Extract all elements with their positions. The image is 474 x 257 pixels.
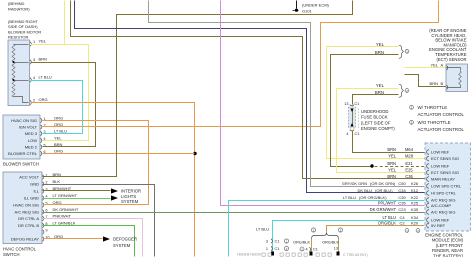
svg-text:ORG/BLK: ORG/BLK [293, 241, 310, 245]
svg-text:1: 1 [266, 247, 268, 251]
wire GRY/DK GRN from top edge to ECM LOW SPD CTRL [149, 1, 425, 187]
arrow to interior lights (blk) [111, 188, 118, 193]
svg-text:DEFOGGER: DEFOGGER [113, 237, 137, 242]
wire YEL variant1 to ECM ECT SENS SIG M28 [327, 47, 425, 159]
svg-text:DR CTRL A: DR CTRL A [18, 216, 39, 221]
svg-text:(LEFT SIDE OF: (LEFT SIDE OF [361, 120, 391, 125]
svg-text:LOW REF: LOW REF [431, 149, 450, 154]
legend 2 without throttle actuator control [410, 120, 414, 124]
svg-text:DEFOG RELAY: DEFOG RELAY [11, 237, 39, 242]
wire DK GRN/WHT HVAC pin6 to ECM A/C REQ SIG [43, 212, 425, 214]
svg-text:M64: M64 [405, 147, 414, 152]
svg-text:(UNDER ECM): (UNDER ECM) [302, 2, 330, 7]
resistor pin 1 [30, 42, 31, 46]
ECT sensor pins A B [447, 66, 448, 70]
svg-text:ORG: ORG [39, 97, 48, 102]
svg-text:ORG: ORG [54, 234, 63, 239]
ECM dashed box [425, 143, 471, 231]
wire ORG blower switch pin2 IGN VOLT to top right [43, 1, 439, 127]
wire YEL resistor pin1 to top edge [64, 1, 66, 45]
svg-text:4: 4 [306, 248, 308, 252]
note UNDERHOOD FUSE BLOCK [358, 109, 360, 129]
svg-text:HVAC ON SIG: HVAC ON SIG [11, 118, 37, 123]
wire YEL resistor pin1 to blower switch LOW [31, 45, 89, 141]
underhood fuse block connector body [349, 107, 356, 128]
svg-text:DK BLU: DK BLU [358, 188, 373, 193]
svg-text:GRY/DK GRN: GRY/DK GRN [342, 181, 367, 186]
svg-text:BLOWER CTRL: BLOWER CTRL [8, 151, 38, 156]
wire ORG/BLK branch 2 to pin 13 [338, 239, 340, 253]
svg-text:K22: K22 [411, 195, 419, 200]
svg-text:ORG: ORG [54, 122, 63, 127]
svg-text:ENGINE COOLANT: ENGINE COOLANT [429, 47, 467, 52]
svg-text:C36: C36 [405, 174, 413, 179]
wire BRN resistor pin3 to blower switch MED 2 [31, 63, 96, 147]
svg-text:C1: C1 [275, 240, 280, 244]
resistor element chain [12, 44, 15, 62]
wire BRN from top edge to ECM MAIN RELAY [71, 1, 425, 179]
svg-text:SYSTEM: SYSTEM [113, 243, 131, 248]
svg-text:6: 6 [46, 208, 48, 212]
svg-text:C T RD US RLY): C T RD US RLY) [343, 253, 368, 257]
wire PNK/WHT HVAC pin7 DR CTRL A down [43, 219, 143, 257]
svg-text:ORG: ORG [53, 200, 62, 205]
svg-text:C1: C1 [275, 247, 280, 251]
svg-text:13: 13 [334, 247, 338, 251]
wire LT BLU ECM A/C REQ SIG down to module [229, 201, 425, 257]
svg-text:2: 2 [46, 180, 48, 184]
svg-text:C34: C34 [398, 188, 406, 193]
blower switch box [3, 115, 40, 159]
svg-text:ORG/BLK: ORG/BLK [322, 241, 339, 245]
svg-text:YEL: YEL [388, 167, 396, 172]
svg-text:LT BLU: LT BLU [343, 195, 356, 200]
resistor pin 3 [30, 60, 31, 64]
svg-text:C1: C1 [313, 248, 318, 252]
svg-text:SWITCH: SWITCH [3, 252, 20, 257]
svg-text:ORG: ORG [54, 149, 63, 154]
svg-text:BRN: BRN [53, 172, 62, 177]
svg-text:GND: GND [30, 182, 39, 187]
fuse block pin 4 C1 [350, 130, 354, 131]
ECM variant circles [405, 229, 409, 233]
fuse block pin 13 C1 [350, 105, 354, 106]
wire BRN/WHT HVAC pin3 ILL to interior lights [43, 190, 111, 192]
svg-text:BRN: BRN [375, 90, 384, 95]
svg-text:BRN: BRN [387, 174, 396, 179]
svg-text:C2: C2 [399, 220, 405, 225]
svg-text:G101: G101 [302, 9, 313, 14]
svg-text:ORG/BLK: ORG/BLK [378, 220, 396, 225]
svg-text:LT GRN/WHT: LT GRN/WHT [53, 193, 78, 198]
svg-text:9: 9 [46, 228, 48, 232]
svg-text:RESISTOR: RESISTOR [8, 35, 28, 40]
ground G101 [296, 1, 298, 9]
svg-text:MAIN RELAY: MAIN RELAY [431, 176, 455, 181]
svg-text:5V REF: 5V REF [431, 223, 446, 228]
svg-text:YEL: YEL [388, 153, 396, 158]
svg-text:UNDERHOOD: UNDERHOOD [361, 109, 388, 114]
svg-text:K34: K34 [411, 215, 419, 220]
svg-text:PNK/WHT: PNK/WHT [53, 214, 72, 219]
svg-text:C35: C35 [398, 200, 406, 205]
wire PPL/WHT from top edge to ECM A/C-COMP [221, 1, 425, 206]
wire BRN variant2 into fuse block pin 13 [353, 95, 399, 105]
svg-text:LT BLU: LT BLU [256, 227, 269, 232]
wire ORG resistor pin2 down to blower control module [31, 103, 195, 257]
blower motor resistor box [8, 40, 30, 106]
svg-text:(BEHIND RIGHT: (BEHIND RIGHT [8, 19, 39, 24]
ECT sensor box [446, 64, 468, 92]
svg-text:K35: K35 [411, 207, 419, 212]
svg-text:SIDE OF DASH): SIDE OF DASH) [8, 24, 38, 29]
svg-text:A/C REQ SIG: A/C REQ SIG [431, 209, 455, 214]
svg-text:C50: C50 [398, 181, 406, 186]
svg-text:A/C REQ SIG: A/C REQ SIG [431, 197, 455, 202]
svg-text:ACTUATOR CONTROL: ACTUATOR CONTROL [418, 127, 465, 132]
svg-text:(OR ORG/BLK): (OR ORG/BLK) [359, 195, 387, 200]
svg-text:LOW REF: LOW REF [431, 217, 450, 222]
wire DK BLU from top edge to ECM HI SPD CTRL [75, 1, 425, 193]
svg-text:LT BLU: LT BLU [382, 215, 396, 220]
svg-text:ENGINE COMPT): ENGINE COMPT) [361, 126, 395, 131]
blower control module connector strip [262, 253, 265, 256]
svg-text:ILL: ILL [33, 189, 39, 194]
wire LT BLU resistor pin4 to blower switch MED 3 [31, 81, 83, 134]
svg-text:YEL: YEL [376, 42, 385, 47]
svg-text:13: 13 [344, 102, 348, 106]
svg-text:C1: C1 [355, 132, 360, 136]
svg-text:ECT SENS SIG: ECT SENS SIG [431, 170, 459, 175]
svg-text:B: B [441, 81, 444, 86]
wire BRN fuse block pin4 to ECM LOW REF M64 [353, 131, 425, 153]
circle 2 throttle variant [405, 89, 409, 93]
svg-text:4: 4 [46, 194, 48, 198]
svg-text:DK GRN/WHT: DK GRN/WHT [53, 207, 79, 212]
blower switch pins 1-6 [41, 118, 42, 122]
arrow interior lights (grn) [111, 195, 118, 200]
wire YEL to ECT sensor pin A [405, 67, 447, 69]
brace variant2 [399, 84, 404, 97]
arrow defogger system [103, 236, 110, 241]
svg-text:K12: K12 [411, 188, 419, 193]
wire ORG blower switch pin6 BLOWER CTRL [43, 153, 195, 155]
svg-text:C1: C1 [355, 102, 360, 106]
svg-text:IGN VOLT: IGN VOLT [19, 125, 38, 130]
svg-text:C30: C30 [398, 195, 406, 200]
wire BRN to ECT sensor pin B [405, 75, 447, 87]
svg-text:E21: E21 [405, 161, 413, 166]
svg-text:BLOWER MOTOR: BLOWER MOTOR [8, 29, 41, 34]
svg-text:E25: E25 [405, 167, 413, 172]
wire BRN HVAC pin1 ACC VOLT to underhood fuse block [43, 1, 353, 177]
svg-text:CYLINDER HEAD,: CYLINDER HEAD, [431, 33, 466, 38]
ECT sensor resistor element [447, 68, 461, 71]
svg-text:TEMPERATURE: TEMPERATURE [435, 52, 467, 57]
svg-text:2: 2 [33, 99, 35, 103]
svg-text:(REAR OF ENGINE: (REAR OF ENGINE [429, 28, 466, 33]
svg-text:ECT SENS SIG: ECT SENS SIG [431, 156, 459, 161]
svg-text:ILL GND: ILL GND [24, 196, 40, 201]
svg-text:LT BLU: LT BLU [39, 75, 52, 80]
svg-text:(LEFT FRONT: (LEFT FRONT [436, 243, 464, 248]
svg-text:ACTUATOR CONTROL: ACTUATOR CONTROL [418, 112, 465, 117]
resistor pin 4 [30, 78, 31, 82]
fuse block internal wire [352, 109, 354, 127]
svg-text:ENGINE CONTROL: ENGINE CONTROL [425, 233, 463, 238]
svg-text:BRN: BRN [39, 57, 48, 62]
svg-text:YEL: YEL [54, 136, 62, 141]
svg-text:DK GRN/WHT: DK GRN/WHT [370, 207, 397, 212]
wire ORG HVAC pin10 DEFOG RELAY to defogger system [45, 238, 103, 240]
svg-text:W/ THROTTLE: W/ THROTTLE [418, 105, 448, 110]
svg-text:BLOWER SWITCH: BLOWER SWITCH [3, 162, 39, 167]
svg-text:LIGHTS: LIGHTS [121, 194, 136, 199]
svg-text:ACC VOLT: ACC VOLT [19, 175, 39, 180]
svg-text:BRN/WHT: BRN/WHT [53, 186, 72, 191]
svg-text:(OR BLU): (OR BLU) [375, 188, 393, 193]
svg-text:3: 3 [33, 58, 35, 62]
circle 1 throttle variant [405, 49, 409, 53]
svg-text:1: 1 [33, 40, 35, 44]
wire BLK HVAC pin2 GND down to bottom [43, 185, 155, 257]
svg-text:LOW: LOW [28, 138, 37, 143]
resistor pin 2 [30, 100, 31, 104]
svg-text:THE BATTERY): THE BATTERY) [433, 253, 463, 257]
svg-text:BRN: BRN [387, 147, 396, 152]
svg-text:M28: M28 [405, 153, 414, 158]
wire LT GRN/WHT HVAC pin4 ILL GND [43, 198, 111, 200]
svg-text:INTERIOR: INTERIOR [121, 189, 141, 194]
wire YEL variant2 to ECM ECT SENS SIG E25 [337, 89, 425, 173]
svg-text:(ECT) SENSOR: (ECT) SENSOR [436, 57, 466, 62]
svg-text:K20: K20 [411, 220, 419, 225]
junction dot ORG at blower ctrl [193, 152, 196, 155]
svg-text:LOW SPD CTRL: LOW SPD CTRL [431, 183, 462, 188]
wire ORG/BLK ECM 5V REF [327, 226, 425, 233]
svg-text:HI SPD CTRL: HI SPD CTRL [431, 190, 457, 195]
svg-text:BLK: BLK [53, 179, 61, 184]
svg-text:W/O THROTTLE: W/O THROTTLE [418, 120, 451, 125]
svg-text:4: 4 [33, 76, 35, 80]
variant circles 1 2 [311, 228, 315, 232]
svg-text:4: 4 [346, 132, 348, 136]
svg-text:BELOW INTAKE: BELOW INTAKE [435, 38, 466, 43]
wire ORG/BLK branch 1 to pin 4 C1 [311, 239, 313, 253]
svg-text:3: 3 [266, 240, 268, 244]
svg-text:BRN: BRN [54, 142, 63, 147]
svg-text:LT BLU: LT BLU [54, 129, 67, 134]
svg-text:HVAC ON SIG: HVAC ON SIG [13, 203, 39, 208]
svg-text:HVAC CONTROL: HVAC CONTROL [3, 247, 37, 252]
module pin black [271, 252, 274, 256]
legend 1 with throttle actuator control [410, 105, 414, 109]
svg-text:A: A [441, 62, 444, 67]
svg-text:SYSTEM: SYSTEM [121, 199, 139, 204]
svg-text:A/C-COMP: A/C-COMP [431, 203, 451, 208]
svg-text:ORG: ORG [54, 116, 63, 121]
HVAC control switch box [3, 172, 42, 244]
brace variant1 [399, 45, 404, 58]
svg-text:DR CTRL B: DR CTRL B [18, 223, 39, 228]
junction dot E21 [370, 164, 373, 167]
svg-text:BRN: BRN [387, 161, 396, 166]
svg-text:MED 3: MED 3 [25, 131, 38, 136]
svg-text:RADIATOR): RADIATOR) [8, 6, 30, 11]
svg-text:PPL/WHT: PPL/WHT [378, 200, 397, 205]
svg-text:YEL: YEL [430, 62, 438, 67]
svg-text:BRN: BRN [375, 50, 384, 55]
svg-text:C4: C4 [399, 215, 405, 220]
svg-text:K26: K26 [411, 181, 419, 186]
wire BRN variant1 to ECM LOW REF E21 (solid part) [331, 55, 399, 167]
svg-text:FENDER, NEAR: FENDER, NEAR [432, 248, 463, 253]
svg-text:MED 2: MED 2 [25, 145, 38, 150]
svg-text:(BEHIND: (BEHIND [8, 1, 25, 6]
split brace ORG/BLK [312, 233, 339, 239]
wire BRN E21 dashed part [375, 166, 425, 168]
svg-text:FUSE BLOCK: FUSE BLOCK [361, 115, 388, 120]
svg-text:LT GRN/BLK: LT GRN/BLK [53, 221, 76, 226]
svg-text:(OR DK GRN): (OR DK GRN) [370, 181, 396, 186]
svg-text:YEL: YEL [376, 83, 385, 88]
svg-text:I B B B B I B B B I: I B B B B I B B B I [237, 253, 261, 257]
svg-text:A/C REQ SIG: A/C REQ SIG [15, 210, 39, 215]
HVAC control switch pins 1-10 [43, 175, 44, 179]
svg-text:LOW REF: LOW REF [431, 163, 450, 168]
wire LT BLU ECM LOW REF down to module pin [273, 221, 425, 253]
svg-text:MODULE (ECM): MODULE (ECM) [432, 238, 464, 243]
wire LT GRN/BLK HVAC pin8 DR CTRL B down [43, 226, 135, 257]
svg-text:K25: K25 [411, 200, 419, 205]
svg-text:BRN: BRN [430, 81, 439, 86]
svg-text:C23: C23 [398, 207, 406, 212]
wire ORG blower switch pin1 to HVAC switch pin5 HVAC ON SIG [43, 121, 149, 205]
svg-text:MANIFOLD): MANIFOLD) [443, 42, 467, 47]
svg-text:YEL: YEL [39, 39, 47, 44]
